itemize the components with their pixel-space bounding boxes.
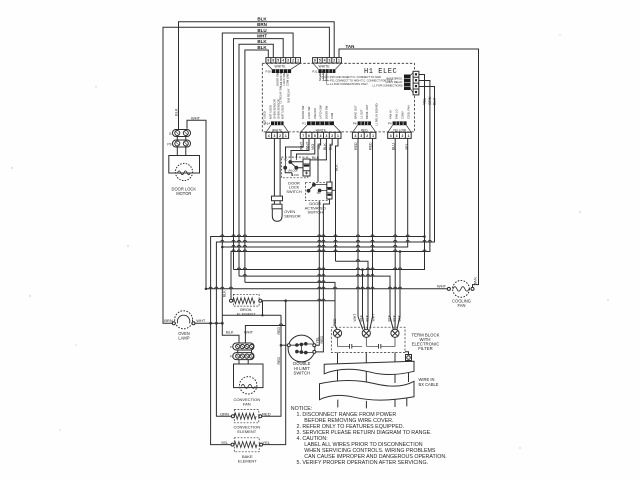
- svg-text:ORN: ORN: [428, 96, 432, 105]
- svg-text:BLU: BLU: [257, 28, 266, 33]
- funnel top-left connector: [266, 63, 300, 69]
- funnel wires into term block right: [390, 317, 400, 330]
- svg-text:TAN: TAN: [317, 143, 321, 150]
- label NO and UNLOCK door lock switch: [284, 159, 300, 177]
- control board H1 ELEC dashed outline: [262, 63, 414, 132]
- svg-text:YEL: YEL: [221, 440, 229, 445]
- svg-text:BLK: BLK: [387, 314, 391, 321]
- svg-text:RED: RED: [262, 411, 271, 416]
- svg-text:7: 7: [302, 134, 304, 138]
- wire strip B pin2 WHT to door lock switch: [291, 138, 309, 157]
- svg-text:BRN: BRN: [164, 318, 173, 323]
- label YEL double switch: [315, 337, 319, 344]
- svg-text:P11 CONNECT TO HIGH T.C. CONNE: P11 CONNECT TO HIGH T.C. CONNECT FOR OFF: [330, 79, 393, 83]
- convection fan connector P1: [233, 343, 254, 350]
- svg-text:BLK: BLK: [257, 17, 267, 22]
- wire double switch left: [281, 344, 287, 346]
- svg-text:P15 GND WHEN T.C. CONNECT TO G: P15 GND WHEN T.C. CONNECT TO GND: [330, 75, 381, 79]
- label RED conv to switch lower: [277, 357, 281, 365]
- crossing hop bumps: [209, 235, 432, 326]
- text BROIL ELEMENT: [237, 307, 256, 317]
- label BLU wire 3: [257, 28, 266, 33]
- label YEL bake element left: [221, 440, 229, 445]
- label P9 connector: [167, 142, 171, 146]
- label WHT cooling fan: [437, 284, 447, 289]
- bus row F to term block center and H1 YEL: [234, 75, 425, 317]
- svg-text:ELEMENT: ELEMENT: [237, 312, 256, 317]
- bus row G to term block right: [239, 276, 390, 316]
- oven sensor connector: [272, 196, 283, 209]
- text OVEN LAMP: [178, 331, 190, 341]
- svg-text:YEL: YEL: [262, 440, 270, 445]
- label P11: [312, 70, 317, 74]
- text DOUBLE HI LIMIT SWITCH: [293, 361, 310, 376]
- tiny pin texts above strip B: [301, 105, 334, 119]
- svg-text:9: 9: [267, 59, 269, 63]
- svg-text:DLB RELAY: DLB RELAY: [286, 88, 290, 103]
- label TAN cooling fan: [473, 277, 478, 285]
- broil element: [230, 294, 262, 306]
- svg-text:BX CABLE: BX CABLE: [419, 382, 439, 387]
- label P2 fan connector: [230, 355, 234, 359]
- svg-text:WHITE: WHITE: [272, 128, 282, 132]
- tiny pin texts above strip C: [353, 103, 378, 126]
- svg-text:NO: NO: [284, 159, 288, 162]
- pin numbers top strip 1: [267, 59, 299, 63]
- oven lamp: [172, 311, 195, 329]
- term block terminal 1: [333, 329, 341, 337]
- svg-text:FAN HI: FAN HI: [389, 110, 393, 119]
- svg-text:P4: P4: [388, 122, 392, 126]
- svg-text:FILTER: FILTER: [418, 346, 432, 351]
- svg-text:SWITCH: SWITCH: [294, 371, 311, 376]
- text DOOR ACTIVATED SWITCH: [305, 201, 326, 215]
- labels term block center fan-in WHT BLK BLK WHT: [353, 314, 375, 322]
- wire convection fan right entry WHT: [245, 326, 285, 344]
- svg-text:BLK: BLK: [312, 156, 320, 160]
- leader lines strip2 notes: [321, 73, 330, 84]
- harness blob P14: [271, 121, 284, 125]
- svg-text:4: 4: [390, 134, 392, 138]
- svg-text:WHT: WHT: [372, 314, 376, 322]
- svg-text:WHT: WHT: [196, 318, 206, 323]
- svg-text:1: 1: [285, 134, 287, 138]
- junction dots: [205, 235, 426, 346]
- svg-text:ORN: ORN: [220, 411, 229, 416]
- labels YEL ORN BLK board wires: [423, 96, 437, 105]
- svg-text:BLK: BLK: [329, 143, 333, 150]
- svg-text:RED: RED: [277, 327, 281, 335]
- bus row C to H1 BLK: [222, 138, 407, 247]
- svg-text:LAMP: LAMP: [178, 335, 189, 340]
- svg-text:2: 2: [333, 59, 335, 63]
- wire strip B pin1 WHT to door lock switch: [286, 138, 304, 157]
- label P1 fan connector: [230, 345, 234, 349]
- svg-text:WHT: WHT: [191, 115, 201, 120]
- svg-text:BLK: BLK: [174, 108, 179, 116]
- convection element: [231, 410, 261, 423]
- text TERM BLOCK WITH ELECTRONIC FILTER: [412, 333, 440, 352]
- label BLK broil wire: [222, 290, 226, 297]
- text DOOR LOCK MOTOR: [172, 186, 197, 196]
- svg-text:NO: NO: [317, 192, 321, 195]
- label BLK wire 5: [257, 39, 267, 44]
- wire strip B pin4 TAN to door activated switch: [318, 138, 321, 182]
- svg-text:UNLOCK: UNLOCK: [313, 108, 317, 119]
- label BLK wire 6: [257, 45, 267, 50]
- svg-text:2: 2: [292, 59, 294, 63]
- svg-text:4: 4: [268, 134, 270, 138]
- funnel bottom strip A: [266, 125, 288, 132]
- bus row A to H1 YEL and bake element: [211, 237, 425, 445]
- svg-text:YEL: YEL: [423, 98, 427, 105]
- label NO door activated switch: [317, 192, 321, 195]
- svg-text:RED: RED: [361, 128, 368, 132]
- svg-text:LATCH SW: LATCH SW: [319, 105, 323, 119]
- door activated switch box: [306, 182, 329, 200]
- term block ground lug: [405, 352, 412, 362]
- title H1 ELEC: [364, 68, 397, 76]
- wires term block to cable: [338, 353, 409, 386]
- funnel bottom strip B: [301, 125, 341, 132]
- wire strip B pin5 BLK horizontal: [308, 138, 327, 160]
- harness blob P16: [272, 69, 291, 73]
- svg-text:BLK: BLK: [323, 143, 327, 150]
- convection fan motor circle: [240, 377, 257, 394]
- svg-text:2: 2: [279, 134, 281, 138]
- label WHITE bottom strip B: [316, 128, 326, 132]
- svg-text:WHITE: WHITE: [319, 65, 331, 69]
- label BRN wire 2: [257, 22, 267, 27]
- pin numbers bottom strip B: [302, 134, 339, 138]
- svg-text:P1: P1: [302, 122, 306, 126]
- text DOOR LOCK SWITCH: [286, 180, 302, 194]
- oven sensor bulb: [272, 209, 282, 222]
- pin numbers bottom strip D: [390, 134, 410, 138]
- wires G to P9 to motor box: [177, 136, 186, 156]
- label WHITE top strip 1: [275, 65, 287, 69]
- funnel bottom strip C: [353, 125, 376, 132]
- svg-text:2: 2: [331, 134, 333, 138]
- connector strip bottom A WHITE: [266, 132, 289, 138]
- svg-text:3: 3: [396, 134, 398, 138]
- svg-text:YEL: YEL: [405, 143, 409, 150]
- text OVEN SENSOR: [284, 209, 301, 218]
- svg-text:UNLOCK: UNLOCK: [288, 170, 298, 173]
- svg-text:BAKE OUT: BAKE OUT: [353, 105, 357, 119]
- svg-text:OVEN SENSOR: OVEN SENSOR: [277, 99, 281, 119]
- wire TAN from connector to cooling fan: [339, 49, 479, 287]
- svg-text:BLK: BLK: [398, 314, 402, 321]
- tiny note lines inside H1: [330, 75, 393, 86]
- label BRN oven lamp: [164, 318, 173, 323]
- svg-text:4: 4: [354, 134, 356, 138]
- door lock motor circle: [175, 163, 192, 180]
- svg-text:LOCK SW: LOCK SW: [282, 73, 286, 86]
- svg-text:RED: RED: [369, 142, 373, 150]
- pin numbers top strip 2: [314, 59, 340, 63]
- svg-text:WHT: WHT: [300, 141, 304, 150]
- label WHT door motor wire: [191, 115, 201, 120]
- wire strip D BLU: [394, 138, 396, 316]
- wire strip B pin3 VIO to door lock switch: [297, 138, 315, 157]
- svg-text:NOT USED: NOT USED: [281, 105, 285, 119]
- label RED term block: [333, 318, 337, 326]
- svg-text:CONV RELAY: CONV RELAY: [385, 80, 402, 84]
- text NOTICE block: [291, 406, 447, 466]
- svg-text:WHT: WHT: [437, 284, 447, 289]
- svg-text:YEL: YEL: [315, 337, 319, 344]
- label P14: [265, 122, 271, 126]
- wire oven sensor pair: [274, 138, 280, 196]
- double hi limit switch: [287, 335, 316, 362]
- svg-text:NOT USED: NOT USED: [269, 105, 273, 119]
- svg-text:ELEMENT: ELEMENT: [238, 459, 257, 464]
- label YEL bake element right: [262, 440, 270, 445]
- connector strip top-left P16: [266, 58, 301, 63]
- tiny pin texts above strip D: [389, 105, 411, 119]
- svg-text:5: 5: [319, 59, 321, 63]
- label WHT wire 4: [257, 34, 267, 39]
- wire W1 BLK top: [179, 22, 335, 129]
- label RED conv to switch upper: [277, 327, 281, 335]
- harness blob P11: [318, 69, 335, 73]
- connector strip bottom C RED: [352, 132, 376, 138]
- funnel bottom strip D: [388, 125, 411, 132]
- label RED bottom strip C: [361, 128, 368, 132]
- door activated switch contacts: [307, 183, 335, 192]
- svg-text:RED: RED: [333, 318, 337, 326]
- svg-text:COM: COM: [330, 112, 334, 119]
- label P8: [353, 122, 357, 126]
- bus row D broil element to term block right: [231, 81, 430, 317]
- door lock switch contacts: [284, 157, 303, 176]
- svg-text:P11: P11: [312, 70, 317, 74]
- svg-text:TAN: TAN: [346, 44, 355, 49]
- pin numbers bottom strip A: [268, 134, 287, 138]
- harness blob P8: [358, 121, 371, 125]
- labels BLU YEL strip D wires: [391, 143, 408, 150]
- svg-text:4: 4: [324, 59, 326, 63]
- svg-text:SENSOR: SENSOR: [284, 214, 301, 219]
- funnel wires into term block center: [358, 317, 373, 330]
- wire door activated switch to double limit switch: [316, 201, 320, 346]
- label BLK door activated switch: [334, 164, 338, 171]
- svg-text:YELLOW: YELLOW: [393, 128, 406, 132]
- term block terminal 3: [391, 329, 399, 337]
- label ORN convection element: [220, 411, 229, 416]
- svg-text:BLK: BLK: [334, 164, 338, 171]
- svg-text:CONV: CONV: [401, 111, 405, 119]
- svg-text:P1: P1: [230, 345, 234, 349]
- svg-text:SWITCH: SWITCH: [308, 210, 324, 215]
- wire WHT door motor down: [187, 120, 206, 288]
- svg-text:SWITCH: SWITCH: [286, 189, 302, 194]
- connector P9 door lock: [173, 140, 191, 147]
- label BLK convection fan: [226, 330, 234, 335]
- svg-text:WHT: WHT: [257, 34, 267, 39]
- svg-text:LOCK: LOCK: [293, 174, 300, 177]
- wire W3 BLU top to convection fan: [222, 33, 293, 343]
- svg-text:BLK: BLK: [359, 314, 363, 321]
- label P16: [265, 70, 271, 74]
- svg-text:2: 2: [366, 134, 368, 138]
- text CONVECTION FAN: [233, 397, 260, 407]
- wire strip B pin6 BLK to door activated switch: [330, 138, 332, 182]
- label G connector: [169, 132, 172, 136]
- door lock switch side connector: [303, 159, 310, 176]
- convection fan connector P2: [233, 353, 254, 360]
- svg-text:NOT USED: NOT USED: [262, 111, 266, 125]
- label RED convection element: [262, 411, 271, 416]
- svg-text:BLK: BLK: [257, 45, 267, 50]
- wire broil right to bake right: [262, 301, 335, 445]
- svg-text:3: 3: [325, 134, 327, 138]
- bus row 9 cooling fan WHT line: [206, 288, 447, 290]
- svg-text:BLK: BLK: [222, 290, 226, 297]
- tiny pin function texts under top strip 2: [318, 68, 329, 81]
- wire W6 BLK top: [245, 50, 268, 282]
- svg-text:RED: RED: [277, 357, 281, 365]
- svg-text:L1 FOR CONNECTIONS: L1 FOR CONNECTIONS: [372, 83, 402, 87]
- svg-text:3: 3: [360, 134, 362, 138]
- svg-text:MOTOR: MOTOR: [176, 191, 191, 196]
- label WHT convection fan: [244, 330, 254, 335]
- door lock switch box: [281, 157, 307, 178]
- svg-text:COOL FAN: COOL FAN: [406, 105, 410, 119]
- svg-text:BLK: BLK: [433, 97, 437, 105]
- wire door activated switch to double limit switch lower: [316, 199, 330, 352]
- svg-text:P16: P16: [265, 70, 271, 74]
- BX cable lead ticks: [338, 398, 407, 408]
- svg-text:VIO: VIO: [311, 144, 315, 150]
- wire W2 BRN top-left to oven lamp: [163, 27, 329, 323]
- bus row B to H1 ORN and convection element: [216, 87, 434, 417]
- svg-text:BLK: BLK: [257, 39, 267, 44]
- svg-text:5: 5: [277, 59, 279, 63]
- svg-text:ELEMENT: ELEMENT: [237, 429, 256, 434]
- svg-text:4: 4: [320, 134, 322, 138]
- svg-text:P8: P8: [353, 122, 357, 126]
- svg-text:RED: RED: [354, 142, 358, 150]
- svg-text:3: 3: [287, 59, 289, 63]
- svg-text:1: 1: [337, 134, 339, 138]
- BX cable band 1: [324, 361, 414, 374]
- connector strip bottom D YELLOW: [388, 132, 412, 138]
- wire W4 WHT top: [234, 39, 284, 270]
- H1 right edge connector: [404, 71, 419, 95]
- svg-text:NEUTRAL: NEUTRAL: [318, 68, 322, 81]
- svg-text:5. VERIFY PROPER OPERATION AF: 5. VERIFY PROPER OPERATION AFTER SERVICI…: [297, 460, 429, 466]
- svg-text:H1 ELEC: H1 ELEC: [364, 68, 397, 76]
- svg-text:OVEN SENSOR: OVEN SENSOR: [273, 99, 277, 119]
- svg-text:1: 1: [297, 59, 299, 63]
- svg-text:L1 RELAY BOARD: L1 RELAY BOARD: [375, 103, 379, 126]
- bus row H to term block left: [245, 282, 337, 329]
- label P4: [388, 122, 392, 126]
- text COOLING FAN: [452, 299, 471, 309]
- labels WHT WHT VIO TAN BLK BLK strip B wires: [300, 141, 333, 150]
- svg-text:L1 OUT: L1 OUT: [359, 109, 363, 119]
- svg-text:5: 5: [314, 134, 316, 138]
- svg-text:6: 6: [314, 59, 316, 63]
- svg-text:FAN: FAN: [243, 401, 251, 406]
- svg-text:BLK: BLK: [365, 314, 369, 321]
- connector G door lock: [173, 130, 191, 137]
- svg-text:BLU: BLU: [391, 143, 395, 150]
- svg-text:COM LINE: COM LINE: [286, 73, 290, 86]
- svg-text:1: 1: [338, 59, 340, 63]
- tiny pin texts above strip A: [269, 99, 285, 119]
- harness blob P4: [393, 121, 407, 125]
- bake element: [231, 438, 263, 452]
- svg-text:P9: P9: [167, 142, 171, 146]
- svg-text:L1 LINE: L1 LINE: [321, 71, 325, 81]
- door lock motor box: [169, 156, 200, 174]
- label YELLOW bottom strip D: [393, 128, 406, 132]
- svg-text:3: 3: [273, 134, 275, 138]
- term block dashed box: [331, 327, 405, 352]
- svg-text:1: 1: [372, 134, 374, 138]
- labels term block right fan-in BLK BLK BLK: [387, 314, 401, 321]
- svg-text:8: 8: [272, 59, 274, 63]
- svg-text:4: 4: [282, 59, 284, 63]
- svg-text:DOOR SW: DOOR SW: [275, 72, 279, 86]
- label WHITE top strip 2: [319, 65, 331, 69]
- svg-text:BAKE BROIL: BAKE BROIL: [387, 76, 403, 80]
- svg-text:BRN: BRN: [257, 22, 267, 27]
- label BLK wire 1: [257, 17, 267, 22]
- svg-text:G: G: [169, 132, 172, 136]
- door activated switch side connector: [327, 182, 332, 199]
- svg-text:WHT: WHT: [244, 330, 254, 335]
- cooling fan: [447, 281, 474, 298]
- svg-text:BLK: BLK: [226, 330, 234, 335]
- svg-text:DOOR SW: DOOR SW: [301, 105, 305, 119]
- svg-text:RED: RED: [320, 336, 324, 344]
- svg-text:L1 FOR CONNECTIONS ONLY: L1 FOR CONNECTIONS ONLY: [330, 82, 368, 86]
- harness blob P1: [307, 121, 334, 125]
- label WHT oven lamp: [196, 318, 206, 323]
- svg-text:GROUND: GROUND: [325, 69, 329, 81]
- svg-text:TAN: TAN: [473, 277, 478, 285]
- funnel top-right connector: [313, 63, 341, 69]
- svg-text:WHITE: WHITE: [316, 128, 326, 132]
- tiny labels right connector: [372, 76, 403, 87]
- svg-text:BROIL OUT: BROIL OUT: [365, 104, 369, 119]
- svg-text:6: 6: [308, 134, 310, 138]
- svg-text:P2: P2: [230, 355, 234, 359]
- wire strip C RED 1: [357, 138, 359, 316]
- svg-text:WHITE: WHITE: [275, 65, 287, 69]
- term block filter capacitors: [338, 337, 396, 348]
- label RED double switch: [320, 336, 324, 344]
- label WHITE bottom strip A: [272, 128, 282, 132]
- oven lamp line right WHT: [195, 322, 222, 324]
- wire W5 BLK top: [239, 44, 273, 276]
- svg-text:FAN: FAN: [458, 303, 466, 308]
- svg-text:1: 1: [407, 134, 409, 138]
- text BAKE ELEMENT: [238, 454, 257, 464]
- connector strip top-right P11: [313, 58, 342, 63]
- wire strip B pin7 BLK to term block center: [336, 138, 339, 261]
- BX cable band 2: [320, 380, 415, 400]
- label BLK door lock switch line: [312, 156, 320, 160]
- label TAN top: [346, 44, 355, 49]
- wire conv element RED to double limit switch: [262, 315, 281, 416]
- text WIRE IN BX CABLE: [419, 377, 439, 387]
- tiny pin function texts under top strip 1: [262, 70, 290, 125]
